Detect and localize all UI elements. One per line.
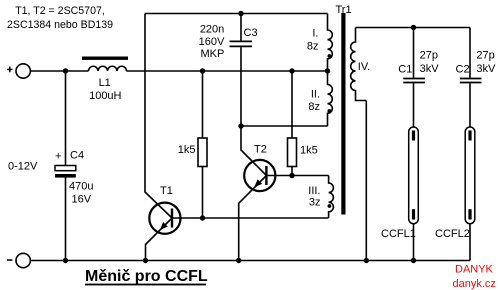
transformer Tr1 core [336, 4, 352, 215]
wire top rail [145, 13, 328, 15]
winding I [307, 14, 332, 72]
wire T1 collector [145, 14, 172, 219]
node center tap [325, 68, 330, 73]
svg-text:C4: C4 [70, 150, 84, 162]
svg-text:2SC1384 nebo BD139: 2SC1384 nebo BD139 [7, 19, 113, 31]
svg-text:Měnič pro CCFL: Měnič pro CCFL [85, 268, 208, 285]
svg-text:16V: 16V [72, 194, 92, 206]
wire bottom rail [30, 260, 470, 262]
svg-text:220n: 220n [200, 24, 224, 36]
lamp CCFL1 [381, 127, 418, 240]
svg-text:1k5: 1k5 [178, 144, 196, 156]
svg-text:470u: 470u [69, 181, 93, 193]
node T2 base [289, 173, 294, 178]
wire 1k5 left leads [202, 71, 204, 218]
svg-text:L1: L1 [99, 77, 111, 89]
svg-text:DANYK: DANYK [455, 264, 494, 276]
svg-text:CCFL1: CCFL1 [381, 228, 416, 240]
svg-text:MKP: MKP [200, 48, 224, 60]
svg-text:3z: 3z [309, 197, 321, 209]
node T2 emitter [236, 258, 241, 263]
lamp CCFL2 [435, 127, 475, 240]
title [85, 268, 208, 285]
wire T1 emitter [146, 218, 173, 261]
svg-text:II.: II. [311, 89, 320, 101]
transistor T2 [244, 144, 275, 192]
node C4/L1 tap [63, 68, 68, 73]
node 1k5 left top [200, 68, 205, 73]
svg-text:IV.: IV. [358, 61, 370, 73]
wire secondary return [365, 101, 367, 261]
svg-text:T2: T2 [254, 144, 267, 156]
terminal - [7, 253, 30, 267]
wire C4 branch [65, 71, 67, 261]
wire T1 base to winding III [172, 217, 329, 219]
winding II [308, 71, 332, 126]
svg-text:3kV: 3kV [476, 63, 496, 75]
wire C3 top lead [240, 14, 242, 41]
svg-text:T1, T2 = 2SC5707,: T1, T2 = 2SC5707, [15, 5, 105, 17]
wire winding II bottom to T2 collector [241, 125, 328, 127]
svg-text:danyk.cz: danyk.cz [453, 278, 496, 290]
winding III [308, 176, 333, 219]
node T1 base [200, 215, 205, 220]
svg-text:+: + [55, 151, 61, 163]
resistor R 1k5 right [288, 138, 318, 167]
svg-text:T1: T1 [160, 185, 173, 197]
node secondary return [364, 258, 369, 263]
wire CCFL2 bottom lead [469, 219, 471, 261]
wire C1 leads [413, 28, 415, 132]
svg-text:CCFL2: CCFL2 [435, 228, 470, 240]
wire C3 bottom / T2 collector [241, 47, 266, 175]
svg-text:C3: C3 [244, 27, 258, 39]
wire C2 leads [469, 28, 471, 132]
node C4 bottom [63, 258, 68, 263]
wire T2 emitter [239, 176, 267, 261]
svg-text:C2: C2 [456, 63, 470, 75]
winding IV [351, 28, 371, 101]
svg-text:0-12V: 0-12V [8, 161, 38, 173]
node CCFL1 return [411, 258, 416, 263]
node C1 top [411, 25, 416, 30]
node T1 emitter [143, 258, 148, 263]
node 1k5 right top [289, 68, 294, 73]
wire CCFL1 bottom lead [413, 219, 415, 261]
capacitor C1 [398, 50, 439, 83]
wire +12V rail right of L1 [127, 70, 328, 72]
svg-text:8z: 8z [307, 41, 319, 53]
inductor L1 [82, 57, 128, 103]
capacitor C2 [456, 50, 497, 83]
wire 1k5 right leads [291, 71, 293, 176]
svg-text:C1: C1 [398, 63, 412, 75]
terminal + [7, 64, 30, 78]
capacitor C4 [55, 150, 93, 206]
svg-text:100uH: 100uH [89, 90, 121, 102]
capacitor C3 [199, 24, 258, 61]
svg-text:160V: 160V [199, 36, 225, 48]
svg-text:8z: 8z [308, 101, 320, 113]
wire T2 base [266, 175, 328, 177]
svg-text:I.: I. [312, 28, 318, 40]
resistor R 1k5 left [178, 138, 207, 167]
transistor T1 [149, 185, 180, 234]
svg-text:1k5: 1k5 [300, 145, 318, 157]
node C3 top [238, 11, 243, 16]
node winding II bottom [238, 123, 243, 128]
svg-text:3kV: 3kV [420, 63, 440, 75]
svg-text:Tr1: Tr1 [336, 4, 352, 16]
svg-text:27p: 27p [476, 50, 494, 62]
wire secondary top rail [356, 27, 471, 29]
wire +12V rail left of L1 [30, 70, 88, 72]
svg-text:27p: 27p [420, 50, 438, 62]
svg-text:III.: III. [308, 185, 320, 197]
